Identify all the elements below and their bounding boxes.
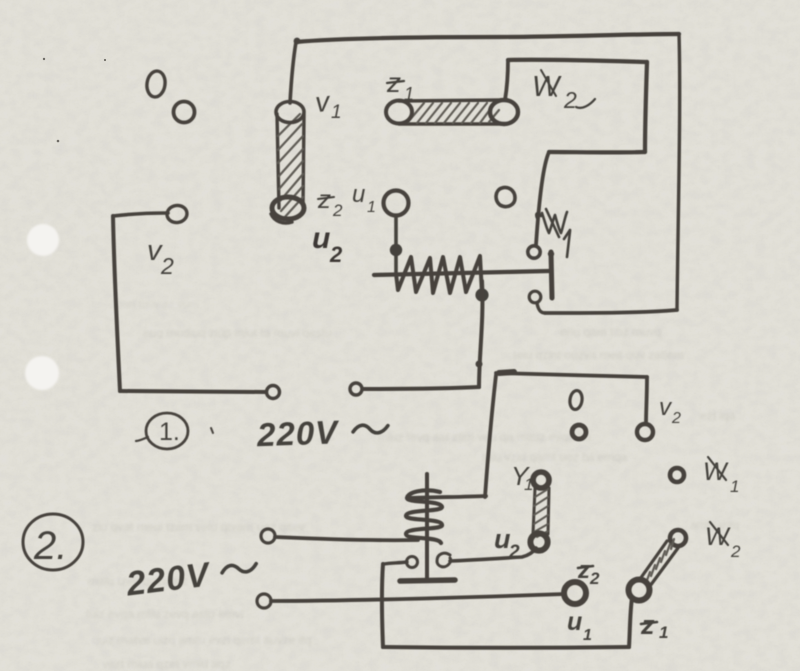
label V2 <box>147 235 174 279</box>
terminal circle supply upper <box>261 529 275 543</box>
wire right contact to U2 <box>450 548 536 561</box>
svg-text:1: 1 <box>583 627 592 644</box>
svg-text:1: 1 <box>367 199 376 216</box>
circled number 1 <box>136 413 213 449</box>
circled number 2 <box>23 514 83 570</box>
label Z1 bottom <box>640 610 668 642</box>
terminal circle right supply <box>350 383 362 395</box>
capacitor Z1 diagonal (hatched cylinder) <box>629 539 679 601</box>
svg-text:teiu qzint ouzva meit quv zati: teiu qzint ouzva meit quv zatiem <box>513 348 684 362</box>
capacitor V1 (hatched cylinder) <box>271 102 304 224</box>
svg-text:2: 2 <box>563 87 577 113</box>
svg-text:1: 1 <box>404 84 414 104</box>
svg-text:2: 2 <box>589 569 600 588</box>
wire bottom right run <box>363 387 479 389</box>
junction dot <box>390 244 402 256</box>
wire Z1 right end up <box>505 60 508 100</box>
wire down from coil <box>479 281 482 387</box>
switch lower contact circle <box>529 291 541 303</box>
svg-text:v: v <box>659 394 673 421</box>
label W1 <box>536 209 570 257</box>
svg-text:1: 1 <box>659 623 668 642</box>
capacitor Y1 (hatched cylinder small) <box>530 472 549 551</box>
wire top-left drop to V1 <box>290 42 296 103</box>
svg-text:1: 1 <box>524 475 533 494</box>
inductor coil zigzag <box>396 256 482 294</box>
terminal U1 ring <box>564 582 586 604</box>
svg-text:quiz matve uizq amtu evzi qemt: quiz matve uizq amtu evzi qemt auvze itq <box>92 633 311 647</box>
label V1 <box>314 86 342 123</box>
svg-text:u: u <box>567 608 582 636</box>
wire coil top to corner <box>408 496 486 498</box>
svg-text:teiu vziu qamt uez tvi emqa: teiu vziu qamt uez tvi emqa <box>482 450 628 464</box>
label U2 <box>494 524 520 563</box>
svg-text:u: u <box>352 181 365 208</box>
terminal V2 circle <box>166 204 188 224</box>
switch blade <box>551 252 552 298</box>
svg-text:1: 1 <box>331 102 342 123</box>
wire bottom run <box>383 645 629 650</box>
label u2 bold <box>312 222 343 267</box>
svg-text:2: 2 <box>329 242 343 267</box>
switch contact circle right <box>437 553 451 567</box>
svg-text:mei tquv az vum: mei tquv az vum <box>118 299 198 311</box>
wire right side outer <box>677 34 680 310</box>
svg-text:W: W <box>703 458 729 486</box>
svg-text:u: u <box>312 222 330 255</box>
svg-text:2: 2 <box>730 542 741 561</box>
capacitor Z1 (hatched cylinder horizontal) <box>386 100 518 124</box>
wire drop to V2 terminal <box>646 377 647 424</box>
terminal V2 ring <box>637 424 653 440</box>
svg-text:2.: 2. <box>33 524 67 568</box>
wire corner vertical up <box>485 375 496 497</box>
wire bottom of outer loop <box>545 310 677 313</box>
label U1 <box>567 608 592 644</box>
label Z1 top <box>386 67 414 104</box>
wire left vertical <box>113 216 120 391</box>
contact plate <box>400 580 455 581</box>
junction dot right <box>475 288 488 301</box>
label V2 <box>659 394 681 427</box>
svg-text:vezt miua qzet vmiu aqz: vezt miua qzet vmiu aqz <box>102 657 231 671</box>
terminal W2 ring <box>670 530 686 546</box>
node circle small (unconnected) <box>496 187 515 206</box>
svg-text:z: z <box>577 557 590 584</box>
punch hole bottom <box>25 356 59 390</box>
wire bottom left run <box>120 391 266 392</box>
wire supply upper to coil <box>275 537 418 540</box>
label W2 <box>705 522 741 561</box>
label z2 <box>577 557 600 588</box>
terminal U1 circle <box>384 191 409 216</box>
wire from U1 down <box>394 216 398 274</box>
svg-text:1: 1 <box>730 477 739 496</box>
wire top run to V2 <box>496 373 647 377</box>
label W1 <box>703 457 739 496</box>
terminal ring small <box>572 425 586 439</box>
wire horizontal main run <box>374 271 549 275</box>
spare terminal circle top-left <box>174 102 195 123</box>
svg-text:miuz tevq aiu ztim veu qa mitu: miuz tevq aiu ztim veu qa mituz evqa itu <box>378 430 591 444</box>
wire inner C-shape right <box>645 62 647 152</box>
svg-text:ezt iqa: ezt iqa <box>700 409 736 423</box>
label 220V~ circuit 2 <box>123 550 259 604</box>
spare terminal ellipse O top-left <box>145 70 166 98</box>
svg-text:2: 2 <box>160 253 174 279</box>
label W2 <box>532 70 595 113</box>
wire inner C-shape down to W1 <box>536 152 549 245</box>
wire inner C-shape top <box>508 60 647 62</box>
terminal W1 circle <box>528 246 540 258</box>
wire bottom up to Z1 <box>629 598 632 647</box>
wire top horizontal <box>296 34 679 42</box>
punch hole top <box>27 224 59 256</box>
label O handwritten <box>569 390 584 410</box>
wire to V2 <box>113 213 168 216</box>
relay coil <box>406 474 442 578</box>
wire left contact to left side <box>384 562 407 564</box>
terminal circle supply lower <box>257 594 271 608</box>
wire inner C-shape middle <box>549 150 645 155</box>
svg-text:1.: 1. <box>159 418 180 446</box>
svg-text:W: W <box>532 71 562 103</box>
svg-text:220V: 220V <box>255 413 340 453</box>
bleed-through ghost text <box>86 299 739 671</box>
svg-text:2: 2 <box>332 201 343 220</box>
svg-text:2: 2 <box>508 542 520 563</box>
svg-text:W: W <box>705 523 731 551</box>
svg-text:eriu qam tibz muvq: eriu qam tibz muvq <box>560 325 661 339</box>
wire left side down <box>382 564 383 647</box>
svg-text:euq mudiuq ziup miut ta muvi q: euq mudiuq ziup miut ta muvi qestu <box>143 326 332 340</box>
wire U1 to supply lower <box>271 594 565 601</box>
terminal circle left supply <box>267 386 280 399</box>
svg-text:tuiz evqa mtiu zevq astu emvi: tuiz evqa mtiu zevq astu emvi <box>86 607 243 621</box>
label Y1 <box>511 461 533 494</box>
paper specks <box>43 58 106 143</box>
labels z2 u1 <box>317 181 376 220</box>
svg-text:2: 2 <box>671 410 681 427</box>
switch contact circle left <box>407 557 418 568</box>
terminal W1 ring <box>670 468 684 482</box>
label 220V~ circuit 1 <box>255 412 388 454</box>
